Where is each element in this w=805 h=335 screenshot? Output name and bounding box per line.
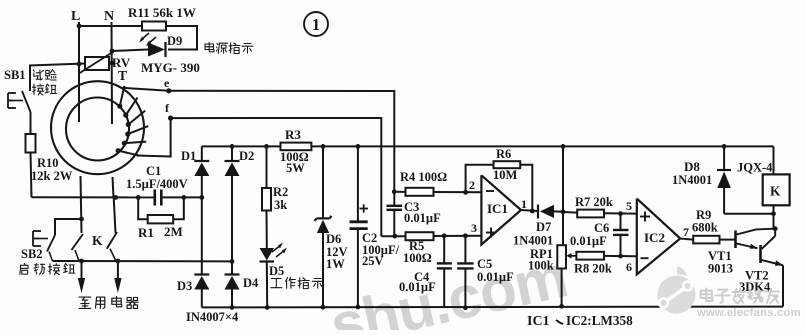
node SB2 hook tap: [79, 217, 84, 222]
svg-text:K: K: [92, 233, 103, 248]
LED D9 arrows: [141, 33, 149, 40]
svg-text:e: e: [164, 76, 170, 90]
wire D9 anode to N: [112, 50, 148, 52]
svg-text:0.01µF: 0.01µF: [404, 211, 441, 225]
IC1 minus: [486, 190, 494, 192]
LED D5 arrows: [272, 245, 281, 252]
svg-text:25V: 25V: [362, 254, 384, 268]
wire winding bottom to f: [137, 118, 171, 156]
node relay D8 junction: [771, 211, 776, 216]
op-amp IC1: [481, 175, 521, 244]
node RV right junction: [110, 61, 115, 66]
IC2 plus: [640, 216, 650, 218]
transistor VT1: [734, 231, 737, 249]
wire f line: [171, 118, 382, 236]
node RP1 bottom: [559, 304, 564, 309]
svg-text:C5: C5: [477, 257, 492, 271]
node load rail end D4: [230, 259, 235, 264]
label 电源指示: [205, 42, 214, 51]
svg-text:1: 1: [521, 197, 527, 211]
watermark logo: [658, 266, 696, 314]
svg-text:2M: 2M: [164, 224, 183, 239]
resistor R9: [693, 236, 719, 244]
switch K pole1 blade: [72, 234, 84, 250]
svg-text:R4 100Ω: R4 100Ω: [400, 170, 447, 184]
svg-text:D8: D8: [684, 159, 700, 174]
capacitor C3: [393, 192, 395, 206]
svg-text:D1: D1: [181, 149, 196, 163]
wire C1 right: [161, 196, 202, 198]
node bus D8: [722, 144, 727, 149]
svg-text:K: K: [770, 184, 781, 199]
svg-text:SB2: SB2: [21, 247, 43, 261]
svg-text:0.01µF: 0.01µF: [399, 280, 436, 294]
node D2 top: [230, 144, 235, 149]
wire e line: [169, 91, 394, 192]
node bus R2: [264, 144, 269, 149]
resistor R8: [576, 252, 604, 260]
wire RV row: [29, 64, 85, 66]
svg-text:R10: R10: [37, 156, 59, 170]
svg-text:680k: 680k: [692, 221, 718, 235]
svg-text:IC1: IC1: [487, 201, 508, 216]
resistor R3: [281, 143, 312, 151]
svg-text:R8 20k: R8 20k: [574, 262, 612, 276]
svg-text:T: T: [118, 68, 127, 83]
svg-text:3: 3: [471, 221, 477, 235]
node C5 bottom: [463, 305, 468, 310]
node RV left junction: [77, 62, 82, 67]
svg-text:0.01µF: 0.01µF: [570, 234, 607, 248]
wire D8 down: [723, 188, 725, 214]
wire D3 down: [201, 290, 203, 308]
resistor R2: [262, 188, 271, 211]
watermark 电子发烧友: [701, 289, 713, 301]
svg-text:D7: D7: [536, 220, 551, 234]
svg-text:L: L: [71, 9, 80, 24]
diode D8: [717, 169, 731, 171]
svg-text:IC2: IC2: [644, 230, 665, 245]
svg-text:1: 1: [312, 15, 320, 34]
diode D3: [194, 273, 209, 275]
wire load rail: [53, 260, 233, 262]
svg-text:www.elecfans.com: www.elecfans.com: [696, 307, 801, 319]
capacitor C2 plus: [360, 208, 369, 210]
svg-text:R1: R1: [138, 225, 154, 240]
node e: [166, 88, 171, 93]
wire D2 branch: [231, 146, 233, 161]
capacitor C6: [620, 214, 622, 230]
node R1 left tap: [136, 195, 141, 200]
svg-text:2: 2: [469, 178, 475, 192]
label 工作指示: [271, 279, 282, 288]
resistor R4: [406, 188, 434, 196]
watermark diagonal text: [324, 242, 573, 335]
svg-text:3k: 3k: [274, 198, 287, 212]
svg-text:C1: C1: [146, 164, 161, 178]
wire RP1 down: [561, 269, 563, 307]
node bus RP1: [561, 144, 566, 149]
wire N line lower: [113, 177, 114, 197]
svg-text:1N4001: 1N4001: [513, 234, 553, 248]
LED D5: [260, 248, 275, 261]
wire D1 branch: [201, 146, 203, 161]
svg-text:R2: R2: [273, 185, 288, 199]
svg-text:9013: 9013: [708, 262, 733, 276]
wire relay bottom: [773, 205, 775, 228]
wire R9 to VT1: [720, 239, 736, 241]
svg-text:1N4001: 1N4001: [672, 173, 712, 187]
diode D7: [537, 205, 539, 219]
wire VT2 emitter down: [782, 265, 784, 306]
svg-text:6: 6: [626, 260, 632, 274]
svg-text:100Ω: 100Ω: [403, 251, 432, 265]
svg-text:0.01µF: 0.01µF: [477, 270, 514, 284]
svg-text:SB1: SB1: [4, 68, 26, 82]
capacitor C4: [443, 236, 445, 263]
transistor VT2: [759, 245, 762, 263]
node bus D6: [321, 144, 326, 149]
figure mark 1: [304, 12, 328, 36]
svg-text:N: N: [104, 9, 114, 24]
svg-text:12k 2W: 12k 2W: [31, 169, 73, 183]
wire R5 to pin3: [434, 235, 482, 237]
wire R2 to D5: [266, 211, 268, 249]
resistor R10: [26, 134, 36, 153]
wire R2 top: [266, 146, 268, 188]
label 按钮: [33, 84, 44, 95]
svg-text:IC1: IC1: [527, 314, 550, 329]
IC1 plus: [486, 232, 496, 234]
resistor R11: [142, 22, 166, 31]
wire pin7: [680, 239, 693, 240]
node f: [168, 116, 173, 121]
svg-text:1.5µF/400V: 1.5µF/400V: [126, 177, 188, 191]
node N crossing y197: [113, 195, 118, 200]
wire D4 down: [231, 290, 233, 308]
switch K pole2 blade: [107, 232, 117, 249]
transformer T secondary winding: [120, 86, 125, 106]
wire R11 to D9 jog: [166, 26, 197, 50]
label 试验: [33, 70, 43, 80]
node C6 bottom: [618, 254, 623, 259]
switch SB1 blade: [22, 91, 31, 112]
wire D6 top: [322, 146, 324, 218]
svg-text:1W: 1W: [326, 257, 345, 271]
node feedback pin1: [530, 209, 535, 214]
wire pin1 out: [521, 210, 538, 211]
LED D9: [148, 43, 165, 57]
node C6 top: [618, 211, 623, 216]
wire node row y197: [32, 196, 155, 198]
wire SB1 top: [29, 66, 31, 92]
node load rail L: [79, 259, 84, 264]
wire winding top to e: [122, 88, 168, 91]
wire N line top: [111, 22, 114, 124]
op-amp IC2: [637, 199, 680, 275]
node D6 bottom: [321, 305, 326, 310]
wire L line top: [78, 22, 80, 122]
capacitor C2: [350, 220, 368, 223]
varistor RV: [85, 57, 109, 70]
svg-text:R11 56k 1W: R11 56k 1W: [128, 5, 196, 20]
wire R4 to pin2: [434, 191, 482, 193]
wire C2 top: [357, 146, 359, 221]
node load rail N: [116, 259, 121, 264]
svg-text:D5: D5: [269, 264, 284, 278]
node D9-N junction: [110, 49, 115, 54]
RP1 wiper arrow: [569, 255, 576, 257]
wire D7 to node: [554, 210, 563, 212]
zener D6: [315, 218, 317, 221]
wire bus right: [311, 145, 773, 147]
IC2 minus: [641, 257, 649, 259]
svg-text:D4: D4: [243, 276, 259, 290]
svg-text:D2: D2: [239, 149, 254, 163]
relay coil K: [763, 174, 790, 205]
label 至用电器: [79, 297, 91, 308]
wire D8 top: [723, 146, 725, 170]
node D4 bottom: [230, 305, 235, 310]
wire bus to RP1: [562, 146, 564, 245]
node D5 bottom: [265, 305, 270, 310]
svg-text:5: 5: [626, 199, 632, 213]
svg-text:D6: D6: [326, 232, 341, 246]
diode D4: [225, 273, 240, 275]
node feedback tap pin2: [463, 190, 468, 195]
svg-text:IN4007×4: IN4007×4: [186, 310, 239, 324]
wire L line lower: [81, 176, 82, 233]
svg-text:IC2:LM358: IC2:LM358: [566, 313, 633, 328]
svg-text:D9: D9: [167, 34, 182, 48]
svg-text:10M: 10M: [493, 168, 518, 182]
resistor R5: [406, 232, 434, 240]
svg-text:R3: R3: [285, 127, 301, 142]
switch SB2 blade: [47, 235, 55, 252]
node D7 R7 RP1: [561, 209, 566, 214]
svg-text:MYG- 390: MYG- 390: [141, 60, 200, 75]
wire D6 down: [322, 233, 324, 307]
wire load arrow 1: [81, 261, 83, 279]
node C4 top: [442, 233, 447, 238]
wire bottom rail: [202, 306, 783, 309]
wire R5 in: [381, 235, 405, 237]
node D1 anode junction: [199, 195, 204, 200]
pushbutton SB2: [33, 230, 41, 232]
wire R4 in: [394, 191, 405, 193]
diode D1: [194, 160, 209, 162]
wire SB2 hook: [55, 219, 82, 235]
wire bus left: [202, 145, 281, 147]
svg-text:C6: C6: [594, 221, 609, 235]
node C3 bottom: [392, 234, 397, 239]
wire bus to relay: [773, 146, 775, 174]
svg-text:JQX-4: JQX-4: [737, 161, 773, 175]
wire D5 down: [266, 262, 268, 308]
wire C2 down: [357, 229, 359, 307]
node collectors: [773, 226, 778, 231]
capacitor C5: [464, 236, 466, 263]
svg-text:5W: 5W: [286, 161, 305, 175]
wire load arrow 2: [117, 261, 119, 279]
resistor R1 loop: [138, 197, 148, 219]
node bus C2: [356, 144, 361, 149]
node C2 bottom: [356, 305, 361, 310]
node R4 tap: [392, 189, 397, 194]
diode D2: [225, 160, 240, 162]
svg-text:D3: D3: [177, 279, 192, 293]
node C5 top: [463, 233, 468, 238]
capacitor C1: [154, 190, 157, 206]
node L top junction: [77, 24, 82, 29]
resistor R7: [563, 211, 577, 214]
svg-text:100k: 100k: [528, 259, 554, 273]
node R1 right tap: [181, 195, 186, 200]
wire R10 down: [31, 153, 32, 198]
wire SB1 to R10: [30, 112, 32, 134]
label 启动按钮: [20, 264, 28, 275]
svg-text:7: 7: [683, 225, 689, 239]
svg-text:R6: R6: [496, 147, 511, 161]
transformer T core: [51, 81, 144, 174]
potentiometer RP1: [557, 245, 566, 268]
wire R11 feed: [79, 25, 142, 27]
svg-text:R7 20k: R7 20k: [575, 195, 613, 209]
resistor R6 feedback: [466, 165, 494, 193]
